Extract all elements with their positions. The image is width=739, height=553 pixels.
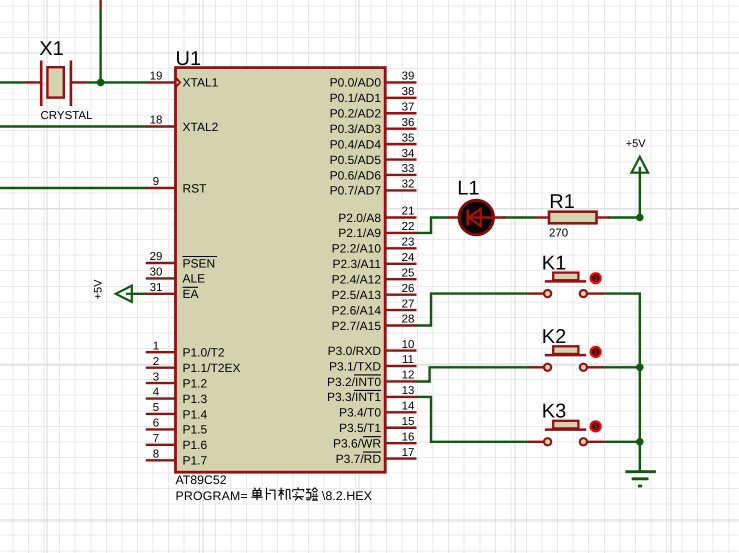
- svg-text:16: 16: [402, 431, 415, 443]
- pin 9 (RST): [146, 187, 176, 189]
- pin 21 (P2.0/A8): [385, 216, 416, 218]
- pin 39 (P0.0/AD0): [385, 81, 416, 83]
- svg-text:P0.7/AD7: P0.7/AD7: [330, 184, 382, 198]
- svg-text:2: 2: [153, 356, 159, 368]
- svg-text:\8.2.HEX: \8.2.HEX: [322, 489, 373, 503]
- pin 11 (P3.1/TXD): [385, 365, 416, 367]
- pin 6 (P1.5): [146, 428, 176, 430]
- svg-text:X1: X1: [39, 38, 63, 60]
- svg-text:12: 12: [402, 370, 415, 382]
- svg-text:P3.1/TXD: P3.1/TXD: [329, 359, 381, 373]
- wire RST: [0, 187, 147, 189]
- pin 4 (P1.3): [146, 397, 176, 399]
- pin 22 (P2.1/A9): [385, 232, 416, 234]
- pin 38 (P0.1/AD1): [385, 97, 416, 99]
- svg-text:P2.1/A9: P2.1/A9: [338, 226, 381, 240]
- led L1: [447, 200, 505, 234]
- svg-text:R1: R1: [549, 191, 575, 213]
- power +5V (top right, pointing up): [632, 157, 649, 173]
- svg-text:35: 35: [402, 132, 415, 144]
- svg-text:28: 28: [402, 314, 415, 326]
- wire vertical from node A to top edge: [99, 8, 101, 82]
- svg-text:3: 3: [153, 371, 159, 383]
- power +5V (left, pointing left): [116, 286, 132, 302]
- svg-text:34: 34: [402, 148, 415, 160]
- crystal X1: [26, 61, 87, 107]
- svg-text:1: 1: [153, 340, 159, 352]
- node bus-K2 junction dot: [636, 364, 644, 372]
- wire pin13 to K3: [416, 397, 529, 442]
- svg-text:P0.1/AD1: P0.1/AD1: [330, 91, 382, 105]
- svg-text:13: 13: [402, 385, 415, 397]
- wire EA to +5V: [131, 293, 147, 295]
- pin 36 (P0.3/AD3): [385, 127, 416, 129]
- svg-text:P0.3/AD3: P0.3/AD3: [330, 122, 382, 136]
- svg-text:P0.2/AD2: P0.2/AD2: [330, 107, 382, 121]
- svg-text:PSEN: PSEN: [183, 256, 216, 270]
- pin 17 (P3.7/RD): [385, 457, 416, 459]
- svg-text:K1: K1: [542, 252, 566, 274]
- wire +5V vertical: [639, 167, 641, 218]
- svg-text:K3: K3: [542, 401, 566, 423]
- svg-text:+5V: +5V: [93, 279, 105, 300]
- svg-text:27: 27: [402, 298, 415, 310]
- pin 2 (P1.1/T2EX): [146, 366, 176, 368]
- svg-text:39: 39: [402, 71, 415, 83]
- svg-text:P3.4/T0: P3.4/T0: [339, 406, 381, 420]
- wire R1 to +5V node: [608, 216, 640, 218]
- wire pin22 to LED: [416, 218, 448, 233]
- svg-text:CRYSTAL: CRYSTAL: [41, 110, 94, 122]
- pin 26 (P2.5/A13): [385, 293, 416, 295]
- svg-text:P3.0/RXD: P3.0/RXD: [328, 344, 382, 358]
- svg-text:XTAL1: XTAL1: [183, 76, 219, 90]
- svg-text:3: 3: [594, 349, 598, 356]
- svg-text:22: 22: [402, 221, 415, 233]
- pin 23 (P2.2/A10): [385, 247, 416, 249]
- svg-text:4: 4: [153, 387, 160, 399]
- node A junction dot: [97, 79, 105, 87]
- svg-text:26: 26: [402, 283, 415, 295]
- wire XTAL1 net left: [0, 81, 26, 83]
- svg-text:P2.5/A13: P2.5/A13: [332, 288, 382, 302]
- ground: [625, 470, 656, 473]
- svg-text:RST: RST: [183, 181, 208, 195]
- wire K2 to bus: [602, 366, 640, 368]
- svg-text:P1.7: P1.7: [183, 454, 208, 468]
- svg-text:29: 29: [150, 251, 163, 263]
- svg-text:P2.0/A8: P2.0/A8: [338, 211, 381, 225]
- svg-text:14: 14: [402, 401, 415, 413]
- svg-text:8: 8: [153, 448, 159, 460]
- svg-text:37: 37: [402, 101, 415, 113]
- svg-text:9: 9: [153, 176, 159, 188]
- svg-text:3: 3: [594, 276, 598, 283]
- pin 25 (P2.4/A12): [385, 278, 416, 280]
- pin 13 (P3.3/INT1): [385, 396, 416, 398]
- switch K3: [529, 421, 604, 446]
- svg-text:38: 38: [402, 86, 415, 98]
- switch K1: [529, 273, 604, 298]
- svg-text:33: 33: [402, 163, 415, 175]
- wire bus K2 to K3: [639, 367, 641, 442]
- wire bus to ground: [639, 442, 641, 472]
- svg-text:17: 17: [402, 447, 415, 459]
- svg-text:P3.5/T1: P3.5/T1: [339, 421, 381, 435]
- svg-text:32: 32: [402, 179, 415, 191]
- svg-text:P3.2/INT0: P3.2/INT0: [327, 375, 381, 389]
- value CJK 单片机实验: [254, 488, 256, 490]
- pin 30 (ALE): [146, 277, 176, 279]
- svg-text:L1: L1: [457, 178, 479, 200]
- svg-text:30: 30: [150, 267, 163, 279]
- svg-text:P3.3/INT1: P3.3/INT1: [327, 390, 381, 404]
- svg-text:15: 15: [402, 416, 415, 428]
- svg-text:PROGRAM=: PROGRAM=: [176, 489, 248, 503]
- svg-text:P3.6/WR: P3.6/WR: [333, 436, 381, 450]
- wire K1 to bus: [602, 294, 640, 368]
- svg-text:P1.1/T2EX: P1.1/T2EX: [183, 361, 241, 375]
- pin 5 (P1.4): [146, 413, 176, 415]
- svg-text:P1.4: P1.4: [183, 407, 208, 421]
- pin 19 (XTAL1): [146, 81, 176, 83]
- wire pin28 to K1: [416, 294, 529, 326]
- svg-text:AT89C52: AT89C52: [176, 473, 227, 487]
- svg-text:6: 6: [153, 418, 159, 430]
- pin 16 (P3.6/WR): [385, 442, 416, 444]
- pin 27 (P2.6/A14): [385, 309, 416, 311]
- svg-text:23: 23: [402, 237, 415, 249]
- resistor R1: [536, 212, 609, 224]
- pin 10 (P3.0/RXD): [385, 349, 416, 351]
- pin 14 (P3.4/T0): [385, 411, 416, 413]
- svg-text:U1: U1: [176, 48, 202, 70]
- svg-text:36: 36: [402, 117, 415, 129]
- svg-text:21: 21: [402, 206, 415, 218]
- pin 28 (P2.7/A15): [385, 324, 416, 326]
- node +5V junction dot: [636, 214, 644, 222]
- wire pin12 to K2: [416, 367, 529, 381]
- svg-text:P1.6: P1.6: [183, 438, 208, 452]
- switch K2: [529, 346, 604, 371]
- svg-text:+5V: +5V: [626, 138, 647, 150]
- pin 35 (P0.4/AD4): [385, 143, 416, 145]
- svg-text:P0.0/AD0: P0.0/AD0: [330, 76, 382, 90]
- svg-text:270: 270: [549, 228, 568, 240]
- svg-text:5: 5: [153, 402, 159, 414]
- svg-text:ALE: ALE: [183, 272, 206, 286]
- svg-text:P1.2: P1.2: [183, 376, 208, 390]
- svg-text:P2.7/A15: P2.7/A15: [332, 319, 382, 333]
- svg-text:P2.4/A12: P2.4/A12: [332, 273, 382, 287]
- svg-text:P0.6/AD6: P0.6/AD6: [330, 168, 382, 182]
- svg-text:7: 7: [153, 433, 159, 445]
- svg-text:EA: EA: [183, 287, 199, 301]
- svg-text:P2.6/A14: P2.6/A14: [332, 303, 382, 317]
- svg-text:11: 11: [402, 354, 414, 366]
- svg-text:10: 10: [402, 339, 415, 351]
- wire XTAL1 crystal to junction to pin 19: [87, 81, 147, 83]
- svg-text:24: 24: [402, 252, 415, 264]
- pin 3 (P1.2): [146, 382, 176, 384]
- svg-text:P0.4/AD4: P0.4/AD4: [330, 137, 382, 151]
- svg-text:P1.5: P1.5: [183, 423, 208, 437]
- clock input marker XTAL1: [176, 76, 181, 88]
- svg-text:31: 31: [150, 282, 163, 294]
- svg-text:25: 25: [402, 267, 415, 279]
- ic U1 AT89C52 body: [176, 68, 386, 473]
- svg-text:K2: K2: [542, 326, 566, 348]
- pin 8 (P1.7): [146, 459, 176, 461]
- pin 37 (P0.2/AD2): [385, 112, 416, 114]
- pin 31 (EA): [146, 293, 176, 295]
- pin 7 (P1.6): [146, 444, 176, 446]
- svg-text:P2.3/A11: P2.3/A11: [333, 257, 382, 271]
- pin 18 (XTAL2): [146, 125, 176, 127]
- pin 33 (P0.6/AD6): [385, 174, 416, 176]
- wire XTAL2: [0, 125, 147, 127]
- pin 12 (P3.2/INT0): [385, 380, 416, 382]
- svg-text:XTAL2: XTAL2: [183, 120, 219, 134]
- pin 15 (P3.5/T1): [385, 427, 416, 429]
- svg-text:P3.7/RD: P3.7/RD: [336, 452, 382, 466]
- svg-text:18: 18: [150, 115, 163, 127]
- svg-text:P2.2/A10: P2.2/A10: [332, 242, 382, 256]
- pin 29 (PSEN): [146, 262, 176, 264]
- svg-text:P0.5/AD5: P0.5/AD5: [330, 153, 382, 167]
- svg-text:P1.0/T2: P1.0/T2: [183, 346, 225, 360]
- node bus-K3 junction dot: [636, 438, 644, 446]
- pin 1 (P1.0/T2): [146, 351, 176, 353]
- wire K3 to bus: [602, 441, 640, 443]
- svg-text:3: 3: [594, 424, 598, 431]
- pin 34 (P0.5/AD5): [385, 158, 416, 160]
- wire LED to R1: [503, 216, 536, 218]
- svg-text:19: 19: [150, 71, 163, 83]
- pin stub top edge (offsheet): [99, 0, 101, 8]
- pin 32 (P0.7/AD7): [385, 189, 416, 191]
- svg-text:P1.3: P1.3: [183, 392, 208, 406]
- pin 24 (P2.3/A11): [385, 263, 416, 265]
